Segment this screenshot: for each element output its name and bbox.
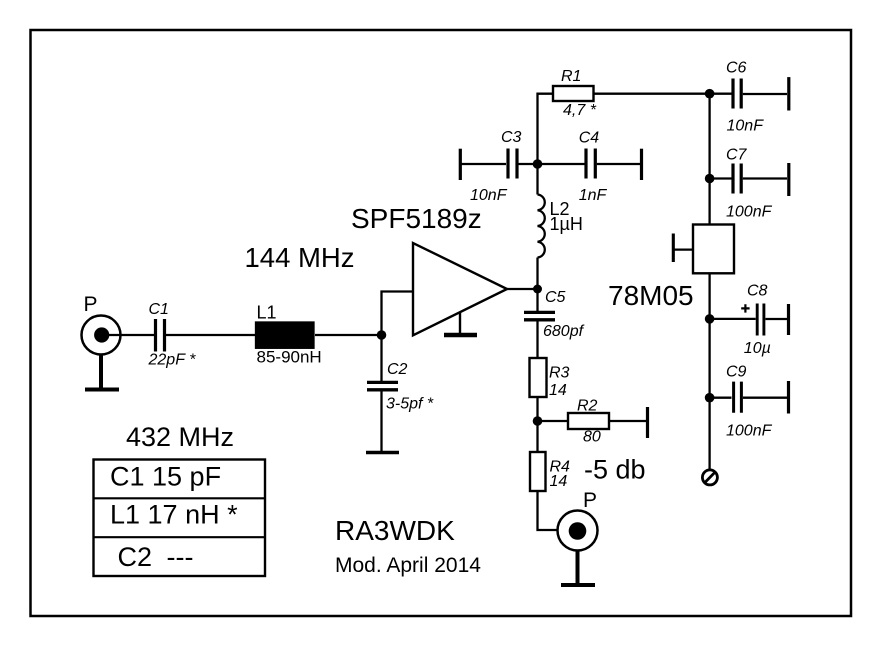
svg-text:22pF *: 22pF * [148,352,197,369]
regulator 78M05 box [693,225,734,274]
capacitor C5 [524,312,555,319]
wire node C to C4 [538,163,585,165]
table box [94,460,266,577]
svg-text:R3: R3 [549,365,570,382]
ground (input connector) [85,355,119,390]
svg-text:85-90nH: 85-90nH [257,348,322,367]
wire C6 to terminal [743,93,787,95]
wire node G to C8 [710,318,756,320]
capacitor C9 [734,382,742,413]
svg-text:RA3WDK: RA3WDK [335,515,455,546]
svg-text:L1 17 nH *: L1 17 nH * [110,500,238,530]
terminal bar (C3 left) [459,149,462,180]
svg-text:C4: C4 [579,130,600,147]
node H junction [705,393,715,403]
svg-text:14: 14 [549,382,567,399]
wire P to C1 [101,334,154,336]
svg-text:C3: C3 [501,129,522,146]
capacitor C6 [733,79,741,109]
inductor L2 [538,195,545,258]
node C junction [533,159,543,169]
wire C8 to terminal [765,318,787,320]
resistor R4 [530,452,546,491]
wire R1 to node E [594,93,710,95]
ground (op-amp) [444,313,477,336]
wire node D to R4 [536,421,538,452]
wire node B to C5 [536,289,538,311]
node E junction [705,89,715,99]
wire node A up to op-amp input [382,292,414,336]
terminal bar (C9) [787,381,790,414]
wire node D to R2 [538,420,569,422]
wire C7 to terminal [743,177,787,179]
terminal bar (C7) [787,163,790,196]
svg-text:L1: L1 [257,303,277,323]
connector P (output) [558,511,598,551]
terminal bar (C8) [787,304,790,335]
wire node F to C7 [710,177,732,179]
resistor R1 [553,86,594,101]
inductor L1 [256,323,314,348]
op-amp U1 SPF5189z [413,243,507,335]
node G junction [705,314,715,324]
wire C1 to L1 [166,334,256,336]
regulator input pin wire [675,248,694,250]
capacitor C4 [586,149,595,179]
svg-text:C8: C8 [747,283,768,300]
svg-text:---: --- [167,542,194,572]
svg-text:1µH: 1µH [550,214,583,234]
wire C3 to node C [519,163,538,165]
node F junction [705,174,715,184]
connector P (input) [82,316,121,355]
wire C5 to R3 [536,321,538,358]
svg-text:78M05: 78M05 [608,280,694,311]
svg-text:R2: R2 [577,398,598,415]
svg-text:10nF: 10nF [470,187,508,204]
node B junction [533,285,542,294]
ground (output connector) [561,551,595,586]
table divider 1 [94,497,266,499]
wire C4 to terminal [597,163,640,165]
svg-text:4,7 *: 4,7 * [563,102,597,119]
wire C3/C4 node up to R1 [538,94,554,164]
chassis ground (slashed circle) [702,470,717,485]
wire terminal to C3 [460,163,506,165]
polarity + (C8) [741,304,749,312]
svg-text:144 MHz: 144 MHz [245,242,355,273]
svg-text:100nF: 100nF [726,204,773,221]
wire regulator to node G [708,273,710,319]
wire node A down to C2 [380,335,382,381]
svg-text:432 MHz: 432 MHz [126,422,234,452]
svg-text:R1: R1 [561,68,581,85]
table divider 2 [94,536,266,538]
ground (C2) [366,451,399,455]
resistor R3 [530,358,547,397]
svg-text:C2: C2 [387,361,408,378]
resistor R2 [568,413,609,429]
svg-text:P: P [583,489,597,512]
svg-text:C6: C6 [726,60,747,77]
terminal bar (R2) [646,407,649,438]
wire node G down to node H [708,319,710,398]
capacitor C2 [367,382,398,389]
svg-text:3-5pf *: 3-5pf * [386,396,434,413]
svg-text:-5 db: -5 db [584,455,646,485]
svg-text:C5: C5 [545,289,566,306]
svg-text:100nF: 100nF [726,423,773,440]
svg-text:10nF: 10nF [727,118,765,135]
capacitor C7 [733,164,741,194]
wire node E to C6 [710,93,732,95]
wire node H to C9 [710,397,732,399]
wire node H to chassis ground [708,398,710,470]
node A junction [377,330,387,340]
wire C2 to ground [380,391,382,451]
wire node E down to node F [708,94,710,179]
terminal bar (C6) [787,77,790,110]
wire C9 to terminal [743,397,787,399]
terminal bar (C4 right) [640,149,643,180]
svg-text:C1 15 pF: C1 15 pF [110,462,221,492]
svg-text:14: 14 [550,473,568,490]
svg-text:C2: C2 [118,542,153,572]
wire L1 to node A [315,334,382,336]
wire op-amp output to node B [507,288,538,290]
capacitor C1 [156,319,165,352]
svg-text:Mod. April 2014: Mod. April 2014 [335,554,481,577]
svg-text:1nF: 1nF [579,187,608,204]
svg-text:SPF5189z: SPF5189z [351,203,482,234]
wire R2 to terminal [609,420,646,422]
wire R4 to connector P (output) [538,491,558,530]
wire node C down from C3/C4 junction to L2 [536,164,538,195]
capacitor C3 [508,149,517,179]
svg-text:C1: C1 [149,301,169,318]
svg-text:C9: C9 [726,364,747,381]
wire L2 to node B [536,258,538,290]
svg-text:C7: C7 [726,147,748,164]
capacitor C8 [757,304,764,336]
node D junction [533,416,543,426]
svg-text:10µ: 10µ [744,340,771,357]
wire node F to regulator [708,179,710,225]
svg-text:80: 80 [583,429,601,446]
svg-text:680pf: 680pf [543,323,585,340]
terminal bar (regulator input) [672,234,675,263]
svg-text:P: P [84,293,98,316]
wire R3 to node D [536,397,538,421]
